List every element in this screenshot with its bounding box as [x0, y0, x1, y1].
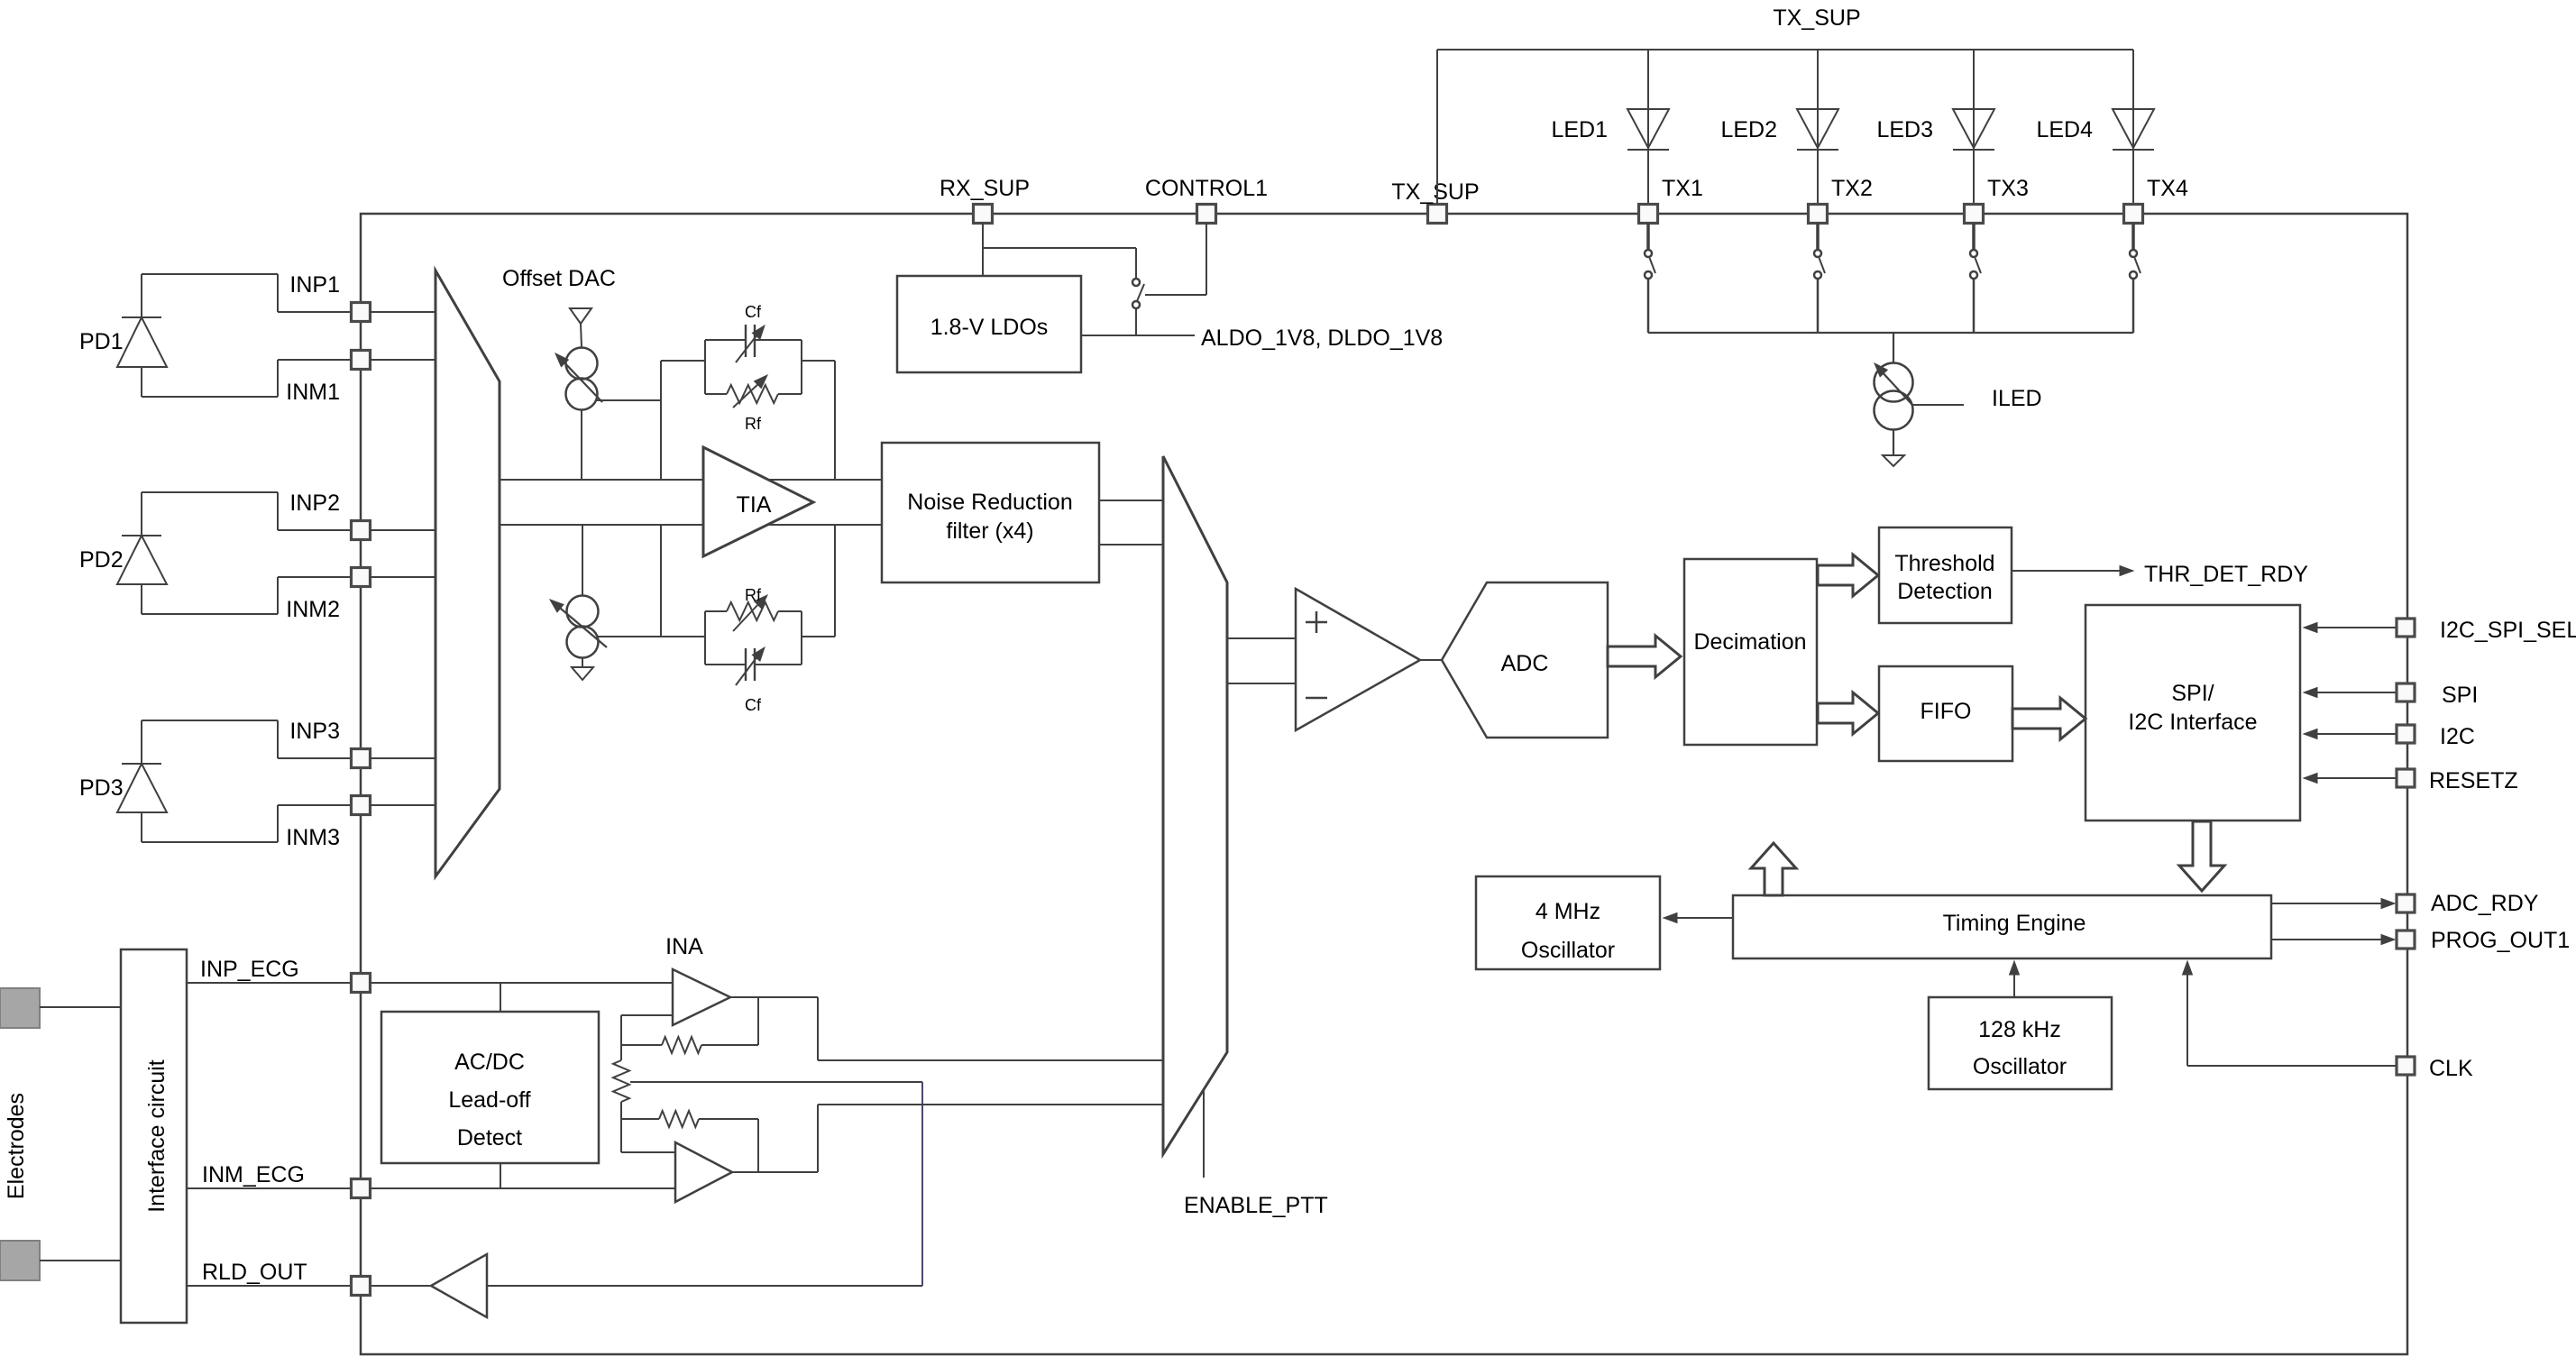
wire IDAC1 to TIA input bus: [581, 410, 582, 480]
svg-text:Electrodes: Electrodes: [4, 1093, 29, 1199]
wire RLD feedback to buffer: [487, 1285, 922, 1287]
wire NR filter to mux (2): [1099, 544, 1163, 546]
svg-text:INM2: INM2: [286, 597, 340, 622]
pin INP3: [289, 719, 370, 768]
switch SW4 (TX4 to ILED): [2130, 223, 2141, 333]
svg-text:PROG_OUT1: PROG_OUT1: [2431, 928, 2570, 953]
svg-text:ADC: ADC: [1501, 651, 1549, 676]
pin RLD_OUT: [202, 1260, 371, 1296]
wire TIA output node (right): [834, 361, 836, 637]
wire INP_ECG to INA: [370, 982, 673, 984]
svg-text:TX1: TX1: [1662, 176, 1703, 201]
wire mux to amp (+): [1227, 637, 1296, 639]
block Decimation: [1684, 559, 1817, 745]
wire RX_SUP to LDO: [982, 223, 984, 276]
wire rail to ILED source: [1893, 333, 1894, 363]
wire IDAC1 tap: [596, 399, 661, 401]
supply symbol (offset DAC): [570, 308, 591, 347]
pin CLK: [2397, 1056, 2473, 1081]
svg-text:INM3: INM3: [286, 825, 340, 850]
label LED3: [1876, 117, 1933, 142]
wire INA bottom output: [732, 1105, 818, 1172]
resistor R1 (INA top feedback): [621, 1037, 758, 1053]
wire INP1 to input mux: [370, 311, 435, 313]
svg-text:Detect: Detect: [457, 1125, 522, 1151]
pin INP1: [289, 272, 370, 322]
svg-text:Lead-off: Lead-off: [448, 1087, 530, 1113]
svg-text:ALDO_1V8, DLDO_1V8: ALDO_1V8, DLDO_1V8: [1201, 325, 1443, 351]
svg-text:Detection: Detection: [1897, 579, 1993, 604]
svg-text:I2C_SPI_SEL: I2C_SPI_SEL: [2440, 618, 2576, 643]
svg-text:TX2: TX2: [1831, 176, 1873, 201]
switch SW3 (TX3 to ILED): [1970, 223, 1981, 333]
resistor R2 (INA bottom feedback): [621, 1111, 758, 1127]
svg-text:I2C: I2C: [2440, 724, 2475, 749]
wire LED common cathode rail: [1648, 332, 2133, 334]
svg-text:Rf: Rf: [745, 586, 762, 604]
svg-text:1.8-V LDOs: 1.8-V LDOs: [930, 315, 1049, 340]
pin SPI: [2397, 683, 2478, 708]
pin INM1: [286, 351, 370, 406]
wire RESETZ to SPI interface: [2304, 774, 2397, 784]
op-amp RLD buffer: [431, 1254, 487, 1317]
wire interface to RLD_OUT: [187, 1285, 353, 1287]
svg-text:Decimation: Decimation: [1693, 629, 1806, 655]
svg-text:Oscillator: Oscillator: [1973, 1054, 2067, 1079]
wire INM3 to input mux: [370, 804, 435, 806]
pin RX_SUP: [940, 176, 1030, 224]
svg-text:LED2: LED2: [1720, 117, 1777, 142]
wire ALDO output: [1081, 335, 1195, 336]
svg-text:INP3: INP3: [289, 719, 340, 744]
wire electrode top to interface: [40, 1006, 121, 1008]
wire I2C to SPI interface: [2304, 729, 2397, 739]
op-amp INA bottom: [675, 1142, 732, 1202]
wire PD2 anode to INM2: [142, 577, 352, 614]
block 128 kHz Oscillator: [1929, 997, 2112, 1089]
svg-text:INM1: INM1: [286, 380, 340, 405]
pin I2C: [2397, 724, 2475, 749]
svg-text:Oscillator: Oscillator: [1521, 938, 1615, 963]
label Rf (top): [745, 415, 762, 433]
svg-text:LED4: LED4: [2036, 117, 2093, 142]
block AC/DC Lead-off Detect: [381, 1012, 599, 1163]
svg-text:ENABLE_PTT: ENABLE_PTT: [1184, 1193, 1328, 1218]
wire PROG_OUT1: [2271, 935, 2395, 945]
svg-text:Noise Reduction: Noise Reduction: [907, 490, 1072, 515]
label Offset DAC: [502, 266, 616, 291]
svg-text:Rf: Rf: [745, 415, 762, 433]
label THR_DET_RDY: [2144, 562, 2308, 587]
arrow Decimation to FIFO: [1818, 692, 1878, 734]
svg-text:CLK: CLK: [2429, 1056, 2473, 1081]
pin TX2: [1809, 176, 1873, 224]
pin INM3: [286, 796, 370, 851]
wire R1 to INA top output: [757, 998, 759, 1045]
resistor Rg (INA gain): [613, 1045, 629, 1119]
arrow FIFO to SPI interface: [2012, 698, 2086, 739]
svg-text:RLD_OUT: RLD_OUT: [202, 1260, 307, 1285]
block SPI/I2C Interface: [2086, 605, 2300, 821]
wire RX_SUP branch to switch: [983, 248, 1136, 279]
block Timing Engine: [1733, 895, 2271, 958]
svg-text:PD2: PD2: [79, 547, 124, 573]
label LED1: [1551, 117, 1608, 142]
wire SPI to SPI interface: [2304, 688, 2397, 698]
electrode (top): [0, 988, 40, 1028]
label ENABLE_PTT: [1184, 1193, 1328, 1218]
svg-text:PD1: PD1: [79, 329, 124, 354]
svg-text:TX_SUP: TX_SUP: [1391, 179, 1479, 205]
svg-text:filter (x4): filter (x4): [946, 518, 1033, 544]
svg-text:RESETZ: RESETZ: [2429, 768, 2518, 793]
block Threshold Detection: [1879, 527, 2012, 623]
arrow ADC to Decimation: [1608, 636, 1681, 677]
pin INM2: [286, 568, 370, 623]
block Noise Reduction filter: [882, 443, 1099, 582]
svg-text:INP2: INP2: [289, 491, 340, 516]
pin CONTROL1: [1145, 176, 1268, 224]
svg-text:RX_SUP: RX_SUP: [940, 176, 1030, 201]
svg-text:TX3: TX3: [1987, 176, 2029, 201]
photodiode PD1: [117, 274, 167, 397]
wire interface to INP_ECG: [187, 982, 352, 984]
svg-text:PD3: PD3: [79, 775, 124, 801]
wire RLD buffer output: [371, 1285, 431, 1287]
label Cf (top): [745, 303, 762, 321]
wire mux to amp (-): [1227, 683, 1296, 684]
ground (offset DAC): [572, 658, 593, 680]
svg-text:SPI: SPI: [2442, 683, 2478, 708]
wire INM_ECG to lead-off detect: [500, 1163, 501, 1188]
svg-text:LED1: LED1: [1551, 117, 1608, 142]
pin I2C_SPI_SEL: [2397, 618, 2576, 643]
svg-text:Threshold: Threshold: [1894, 551, 1994, 576]
block 1.8-V LDOs: [897, 276, 1081, 372]
pin TX4: [2124, 176, 2188, 224]
switch (LDO bypass): [1132, 279, 1144, 335]
wire PD1 anode to INM1: [142, 360, 352, 397]
pin ADC_RDY: [2397, 891, 2539, 916]
pin TX_SUP: [1391, 179, 1479, 224]
LED diode LED2: [1797, 50, 1838, 205]
label ILED: [1992, 386, 2042, 411]
wire ENABLE_PTT: [1203, 1089, 1205, 1178]
svg-text:INA: INA: [665, 934, 703, 959]
signal mux (PPG/ECG select): [1163, 456, 1227, 1154]
wire INA output to mux (top): [818, 1059, 1164, 1061]
wire electrode bottom to interface: [40, 1260, 121, 1261]
wire TX_SUP pin to top rail: [1436, 50, 1438, 205]
input mux (PD channel select): [435, 270, 500, 876]
svg-text:INM_ECG: INM_ECG: [202, 1162, 305, 1187]
wire Timing Engine to 4 MHz oscillator: [1664, 913, 1733, 923]
pin INP2: [289, 491, 370, 540]
block 4 MHz Oscillator: [1476, 876, 1660, 969]
svg-text:ILED: ILED: [1992, 386, 2042, 411]
svg-text:Cf: Cf: [745, 696, 762, 714]
pin PROG_OUT1: [2397, 928, 2570, 953]
svg-text:SPI/: SPI/: [2171, 681, 2214, 706]
op-amp INA top: [673, 969, 730, 1025]
switch SW2 (TX2 to ILED): [1814, 223, 1825, 333]
block Interface circuit: [121, 949, 187, 1323]
pin TX3: [1965, 176, 2029, 224]
feedback network Rf/Cf (bottom): [661, 595, 835, 685]
wire PD3 anode to INM3: [142, 805, 352, 842]
label LED4: [2036, 117, 2093, 142]
switch SW1 (TX1 to ILED): [1645, 223, 1655, 333]
pin INP_ECG: [200, 957, 371, 993]
svg-text:LED3: LED3: [1876, 117, 1933, 142]
wire THR_DET_RDY: [2012, 566, 2133, 576]
svg-text:4 MHz: 4 MHz: [1536, 899, 1600, 924]
wire PD2 cathode to INP2: [142, 492, 352, 530]
current source IDAC2 (offset DAC bottom): [550, 596, 607, 658]
wire INA top output: [730, 997, 818, 1060]
label LED2: [1720, 117, 1777, 142]
svg-text:I2C Interface: I2C Interface: [2128, 710, 2257, 735]
wire INM_ECG to INA: [370, 1187, 675, 1189]
label PD1: [79, 329, 124, 354]
LED diode LED1: [1627, 50, 1669, 205]
wire amp to ADC: [1420, 659, 1442, 661]
wire Rg mid tap to RLD: [630, 1081, 922, 1083]
current source ILED: [1875, 363, 1913, 430]
LED diode LED4: [2113, 50, 2154, 205]
pin TX1: [1639, 176, 1703, 224]
svg-text:Interface circuit: Interface circuit: [144, 1059, 170, 1213]
wire INA output to mux (bottom): [818, 1104, 1164, 1105]
svg-text:CONTROL1: CONTROL1: [1145, 176, 1268, 201]
ADC: [1442, 582, 1608, 738]
label INA: [665, 934, 703, 959]
wire PD1 cathode to INP1: [142, 274, 352, 312]
LED diode LED3: [1953, 50, 1994, 205]
wire INM1 to input mux: [370, 359, 435, 361]
wire NR filter to mux (1): [1099, 500, 1163, 501]
svg-text:INP1: INP1: [289, 272, 340, 298]
svg-text:TX4: TX4: [2147, 176, 2188, 201]
wire ADC_RDY: [2271, 899, 2395, 909]
wire CONTROL1 to switch: [1145, 223, 1206, 295]
svg-text:THR_DET_RDY: THR_DET_RDY: [2144, 562, 2308, 587]
op-amp TIA: [703, 447, 813, 556]
electrode (bottom): [0, 1241, 40, 1280]
chip boundary (AFE outline): [361, 214, 2407, 1354]
arrow Timing Engine up: [1751, 843, 1796, 895]
wire 128 kHz oscillator to Timing Engine: [2010, 961, 2020, 997]
label Cf (bottom): [745, 696, 762, 714]
wire TIA input node (left): [660, 361, 662, 637]
label Electrodes: [4, 1093, 29, 1199]
wire INA top inverting input: [621, 1015, 673, 1045]
svg-text:TIA: TIA: [737, 492, 772, 518]
svg-text:128 kHz: 128 kHz: [1978, 1017, 2061, 1042]
svg-text:Timing Engine: Timing Engine: [1943, 911, 2086, 936]
label PD3: [79, 775, 124, 801]
photodiode PD3: [117, 720, 167, 842]
wire ILED tap: [1912, 404, 1964, 406]
svg-text:AC/DC: AC/DC: [454, 1050, 525, 1075]
wire bus to IDAC2: [582, 525, 583, 595]
wire INM2 to input mux: [370, 576, 435, 578]
wire interface to INM_ECG: [187, 1187, 352, 1189]
pin INM_ECG: [202, 1162, 371, 1198]
label TX_SUP (top): [1773, 5, 1860, 31]
label PD2: [79, 547, 124, 573]
wire I2C_SPI_SEL to SPI interface: [2304, 623, 2397, 633]
wire TX_SUP top rail: [1437, 49, 2133, 50]
arrow Decimation to Threshold Detection: [1818, 555, 1878, 596]
svg-text:TX_SUP: TX_SUP: [1773, 5, 1860, 31]
svg-text:Offset DAC: Offset DAC: [502, 266, 616, 291]
wire IDAC2 tap: [598, 636, 661, 637]
photodiode PD2: [117, 492, 167, 614]
wire INP3 to input mux: [370, 757, 435, 759]
wire R2 to INA bottom output: [757, 1119, 759, 1172]
feedback network Cf/Rf (top): [661, 325, 835, 408]
arrow SPI interface to Timing Engine: [2179, 821, 2224, 891]
svg-text:ADC_RDY: ADC_RDY: [2431, 891, 2539, 916]
wire CLK to Timing Engine: [2183, 961, 2397, 1066]
op-amp ADC buffer: [1296, 589, 1420, 730]
wire TIA input/output bus: [500, 480, 882, 525]
label ALDO_1V8 DLDO_1V8: [1201, 325, 1443, 351]
pin RESETZ: [2397, 768, 2518, 793]
wire RLD feedback (vertical): [921, 1082, 923, 1286]
wire INP_ECG to lead-off detect: [500, 983, 501, 1012]
wire PD3 cathode to INP3: [142, 720, 352, 758]
label Rf (bottom): [745, 586, 762, 604]
svg-text:Cf: Cf: [745, 303, 762, 321]
ground (ILED): [1883, 429, 1904, 466]
wire INP2 to input mux: [370, 529, 435, 531]
block FIFO: [1879, 666, 2012, 761]
current source IDAC1 (offset DAC top): [555, 348, 602, 410]
svg-text:INP_ECG: INP_ECG: [200, 957, 299, 982]
svg-text:FIFO: FIFO: [1921, 699, 1972, 724]
wire INA bottom inverting input: [621, 1119, 675, 1152]
